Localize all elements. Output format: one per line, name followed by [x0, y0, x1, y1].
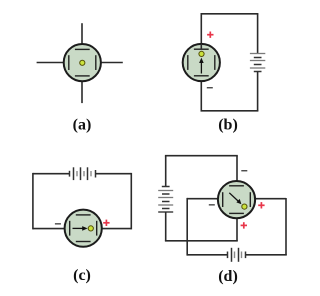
wire right lead of tube A — [96, 62, 123, 64]
battery B1 line5 long — [250, 67, 265, 69]
plate bottom (b) — [194, 75, 209, 77]
wire top segment above tube B — [200, 14, 202, 49]
tube (b) envelope — [183, 44, 220, 81]
plate right (a) — [95, 55, 97, 70]
plus label right (d) — [258, 202, 264, 208]
wire top left vertical D to battery — [165, 156, 167, 187]
wire inner left vertical D — [186, 198, 188, 256]
battery D-left long4 bottom terminal — [158, 211, 173, 213]
minus label top (d) — [241, 170, 247, 171]
wire bottom segment below tube B — [200, 76, 202, 111]
velocity arrow (b) — [199, 58, 204, 74]
plate bottom (d) — [229, 212, 244, 214]
plus label (b) — [207, 32, 213, 38]
tube (c) envelope — [65, 210, 102, 247]
wire top lead of tube A — [81, 23, 83, 49]
tube (d) envelope — [218, 181, 255, 218]
battery C short1 — [76, 171, 78, 176]
wire bottom right from tube C — [97, 228, 132, 230]
wire down from top horizontal to tube D — [236, 156, 238, 186]
wire top horizontal B — [201, 13, 259, 15]
plate right (c) — [96, 221, 98, 236]
battery C cap right — [95, 170, 97, 178]
minus label (c) — [55, 223, 61, 224]
plate top (b) — [194, 48, 209, 50]
battery C short3 — [90, 171, 92, 176]
wire bottom lead of tube A — [81, 76, 83, 103]
battery D-bottom tall2 — [238, 248, 240, 262]
battery D-left short2 — [162, 201, 170, 203]
plus label (c) — [103, 220, 109, 226]
battery C tall3 — [87, 167, 89, 180]
svg-text:(a): (a) — [73, 117, 92, 134]
wire top right segment C — [96, 173, 132, 175]
wire inner bottom right D — [246, 254, 287, 256]
plate left (a) — [68, 55, 70, 70]
plate top (d) — [229, 185, 244, 187]
plate left (b) — [187, 55, 189, 70]
velocity arrow (c) — [73, 226, 88, 231]
wire right vertical D — [285, 198, 287, 255]
wire up to tube bottom D — [236, 213, 238, 240]
svg-text:(d): (d) — [218, 268, 238, 285]
battery D-left cap top — [162, 186, 170, 188]
velocity arrow (d) — [229, 193, 241, 204]
battery D-bottom short2 — [241, 252, 243, 259]
battery D-left short3 — [162, 208, 170, 210]
battery C tall2 — [80, 167, 82, 180]
battery D-bottom tall1 — [231, 248, 233, 262]
battery B1 line3 long — [250, 60, 265, 62]
wire inner bottom left D — [187, 254, 228, 256]
svg-text:(b): (b) — [218, 117, 238, 134]
battery B1 line6 short — [254, 71, 262, 73]
battery D-left long1 — [158, 190, 173, 192]
battery C short2 — [83, 171, 85, 176]
plate bottom (c) — [76, 241, 91, 243]
plate left (c) — [69, 221, 71, 236]
battery C tall1 — [73, 167, 75, 180]
tube (a) envelope — [64, 44, 101, 81]
plate top (c) — [76, 214, 91, 216]
wire lower horizontal D (battery loop) — [165, 240, 238, 242]
battery D-left long2 — [158, 197, 173, 199]
wire stub into tube B top — [200, 44, 202, 49]
plus label bottom (d) — [241, 222, 247, 228]
wire left vertical C — [32, 173, 34, 230]
plate bottom (a) — [75, 75, 90, 77]
charge dot (d) — [242, 204, 247, 209]
charge dot (a) — [80, 60, 85, 65]
battery C cap left — [69, 171, 71, 177]
minus label (b) — [207, 87, 213, 88]
wire top left segment C — [33, 173, 69, 175]
charge dot (b) — [199, 51, 204, 56]
battery B1 line2 short — [254, 57, 262, 59]
battery D-bottom cap left — [227, 252, 229, 259]
battery B1 line4 short — [254, 64, 262, 66]
wire top horizontal D — [165, 155, 238, 157]
minus label left (d) — [209, 204, 215, 205]
battery D-left short1 — [162, 193, 170, 195]
wire bottom left vertical D from battery — [165, 212, 167, 241]
wire right plate lead D — [250, 198, 286, 200]
wire bottom horizontal B — [201, 110, 259, 112]
battery D-bottom cap right — [245, 252, 247, 259]
plate top (a) — [75, 48, 90, 50]
battery B1 line1 long — [250, 53, 265, 55]
wire left plate lead D — [187, 198, 223, 200]
battery D-bottom short1 — [234, 252, 236, 259]
plate left (d) — [222, 192, 224, 207]
wire left lead of tube A — [37, 62, 69, 64]
charge dot (c) — [88, 226, 93, 231]
battery D-left long3 — [158, 204, 173, 206]
wire right lower B — [257, 72, 259, 111]
wire right upper B — [257, 14, 259, 54]
wire bottom left to tube C — [33, 228, 70, 230]
svg-text:(c): (c) — [73, 267, 91, 284]
plate right (b) — [214, 55, 216, 70]
wire right vertical C — [130, 173, 132, 230]
plate right (d) — [249, 192, 251, 207]
